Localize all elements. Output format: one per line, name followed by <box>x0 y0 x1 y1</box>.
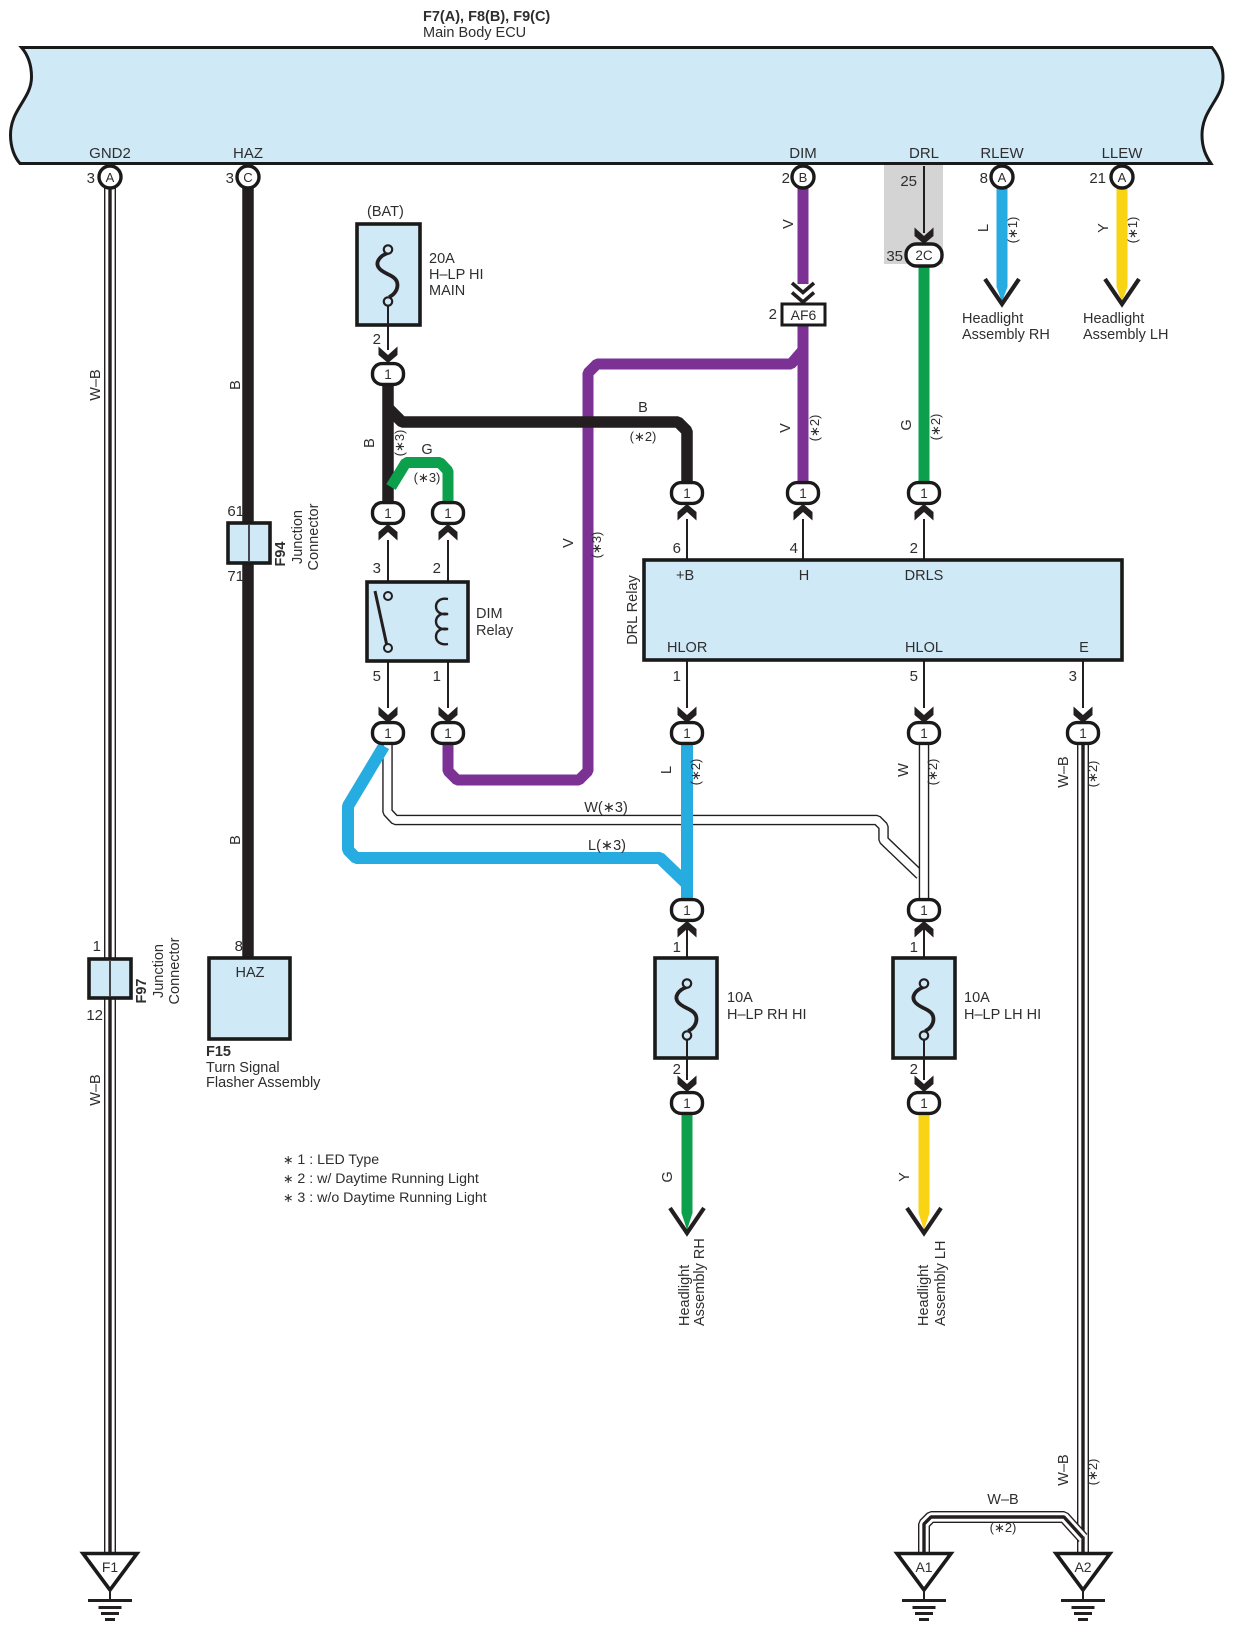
svg-text:35: 35 <box>886 248 903 265</box>
oval 1 below LH fuse <box>909 1093 940 1114</box>
wire W-B from GND2 pin A to F97 (outline) <box>104 188 116 959</box>
svg-text:12: 12 <box>86 1007 103 1024</box>
svg-text:21: 21 <box>1089 170 1106 187</box>
svg-text:Y: Y <box>897 1172 913 1182</box>
arrow up into RH fuse oval <box>678 921 697 938</box>
svg-text:1: 1 <box>920 1096 928 1111</box>
oval 1 below HLOL <box>909 723 940 744</box>
double chevron into AF6 <box>792 283 814 302</box>
arrow up into DIM relay pin 3 oval <box>379 524 398 541</box>
svg-text:1: 1 <box>683 486 691 501</box>
lead DIM relay pin 5 <box>387 652 389 708</box>
svg-text:2C: 2C <box>915 248 933 263</box>
fuse 10A H-LP RH HI <box>655 958 717 1058</box>
svg-text:G: G <box>421 442 432 458</box>
junction connector F97 <box>89 959 131 998</box>
svg-text:(∗3): (∗3) <box>589 532 604 559</box>
svg-text:1: 1 <box>920 486 928 501</box>
svg-text:4: 4 <box>790 540 798 557</box>
wire V (purple) from AF6 down to oval above DRL relay pin 4 <box>798 324 809 484</box>
svg-text:Headlight: Headlight <box>916 1265 932 1326</box>
svg-text:F7(A), F8(B), F9(C): F7(A), F8(B), F9(C) <box>423 9 550 25</box>
svg-text:(∗1): (∗1) <box>1005 217 1020 244</box>
oval 1 above DRLS <box>909 483 940 504</box>
arrow up into DIM relay pin 2 oval <box>439 524 458 541</box>
oval 1 above DIM relay pin 3 <box>373 503 404 524</box>
svg-text:E: E <box>1079 640 1089 656</box>
wire W-B(*2) branch from A1 ground to A2 wire <box>924 1517 1083 1554</box>
svg-text:(∗2): (∗2) <box>688 759 703 786</box>
svg-text:B: B <box>228 380 244 390</box>
wire Y yellow from LH fuse oval to headlight LH arrow <box>919 1113 930 1213</box>
DIM relay <box>367 582 468 661</box>
wire B (black) from HAZ pin C to F94 <box>242 188 254 523</box>
wire L(*3) blue from DIM relay pin 5 oval to RH fuse wire <box>348 746 687 884</box>
svg-text:A2: A2 <box>1074 1559 1091 1575</box>
svg-text:H–LP LH HI: H–LP LH HI <box>964 1007 1041 1023</box>
svg-text:1: 1 <box>683 726 691 741</box>
DRL relay <box>644 560 1122 660</box>
pin circle C (HAZ) <box>237 166 259 188</box>
svg-text:1: 1 <box>1079 726 1087 741</box>
svg-text:G: G <box>660 1171 676 1182</box>
svg-text:8: 8 <box>235 938 243 955</box>
svg-text:Headlight: Headlight <box>962 311 1023 327</box>
headlight LH arrow (LLEW) <box>1105 279 1139 304</box>
svg-text:1: 1 <box>673 668 681 685</box>
svg-text:MAIN: MAIN <box>429 283 465 299</box>
svg-text:2: 2 <box>769 306 777 323</box>
svg-text:(∗2): (∗2) <box>928 414 943 441</box>
svg-text:(∗2): (∗2) <box>1085 1459 1100 1486</box>
fuse 10A H-LP LH HI <box>893 958 955 1058</box>
lead DRL relay pin 1 HLOR <box>686 660 688 708</box>
svg-text:1: 1 <box>683 903 691 918</box>
svg-text:Assembly RH: Assembly RH <box>962 327 1050 343</box>
arrow down into DIM relay pin 5 oval <box>379 707 398 724</box>
arrow up into DRLS oval <box>915 504 934 521</box>
svg-text:Headlight: Headlight <box>677 1265 693 1326</box>
gray DRL option box <box>884 165 943 264</box>
svg-text:A: A <box>998 170 1007 185</box>
svg-text:1: 1 <box>444 726 452 741</box>
svg-text:(BAT): (BAT) <box>367 204 404 220</box>
lead DIM relay pin 3 <box>387 540 389 591</box>
svg-text:B: B <box>799 170 808 185</box>
svg-text:25: 25 <box>900 173 917 190</box>
wire B (black) from F94 to F15 <box>242 563 254 958</box>
svg-text:10A: 10A <box>964 990 990 1006</box>
oval 1 below RH fuse <box>672 1093 703 1114</box>
svg-text:F97: F97 <box>134 979 150 1004</box>
ground A2 <box>1056 1554 1110 1620</box>
svg-text:DRLS: DRLS <box>905 568 944 584</box>
svg-text:HAZ: HAZ <box>233 145 263 162</box>
headlight RH arrow (RLEW) <box>985 279 1019 304</box>
arrow up into H oval <box>794 504 813 521</box>
svg-text:2: 2 <box>910 1061 918 1078</box>
svg-text:V: V <box>778 423 794 433</box>
svg-text:61: 61 <box>227 503 244 520</box>
svg-text:F1: F1 <box>102 1559 119 1575</box>
svg-text:Junction: Junction <box>290 510 306 564</box>
svg-text:20A: 20A <box>429 251 455 267</box>
svg-text:V: V <box>781 219 797 229</box>
svg-text:8: 8 <box>980 170 988 187</box>
svg-text:1: 1 <box>384 506 392 521</box>
oval 1 above LH fuse <box>909 900 940 921</box>
pin circle A (GND2) <box>99 166 121 188</box>
svg-text:DIM: DIM <box>789 145 817 162</box>
svg-text:Connector: Connector <box>167 937 183 1004</box>
svg-text:W(∗3): W(∗3) <box>584 800 628 816</box>
oval 1 below E <box>1068 723 1099 744</box>
wire W(*3) white from DIM relay pin 5 oval to LH fuse wire <box>388 743 921 875</box>
svg-text:2: 2 <box>782 170 790 187</box>
wire V (purple) from DIM pin B down to AF6 <box>798 188 809 284</box>
svg-text:B: B <box>228 835 244 845</box>
svg-text:10A: 10A <box>727 990 753 1006</box>
oval 1 above DIM relay pin 2 <box>433 503 464 524</box>
lead LH fuse pin 2 <box>923 1058 925 1080</box>
wire V(*3) purple branch: AF6 leg to DIM relay pin 1 oval <box>448 349 804 780</box>
svg-text:Flasher Assembly: Flasher Assembly <box>206 1075 321 1091</box>
svg-text:1: 1 <box>384 726 392 741</box>
junction AF6 <box>782 304 825 325</box>
F15 turn signal flasher assembly box <box>209 958 290 1039</box>
Main Body ECU banner <box>11 48 1224 164</box>
svg-text:DRL: DRL <box>909 145 939 162</box>
svg-text:3: 3 <box>373 560 381 577</box>
wire L(*2) blue from HLOR oval to RH fuse oval <box>681 743 693 900</box>
svg-text:C: C <box>243 170 252 185</box>
junction connector F94 <box>228 523 270 563</box>
svg-text:L: L <box>976 224 992 232</box>
svg-text:W–B: W–B <box>88 1074 104 1105</box>
oval 1 below DIM relay pin 5 <box>373 723 404 744</box>
svg-text:2: 2 <box>433 560 441 577</box>
svg-text:∗ 3 : w/o Daytime Running Ligh: ∗ 3 : w/o Daytime Running Light <box>283 1190 487 1206</box>
svg-text:W–B: W–B <box>1056 756 1072 787</box>
oval 1 below BAT fuse <box>373 364 404 385</box>
arrow down into LH fuse out oval <box>915 1076 934 1093</box>
svg-text:B: B <box>638 400 648 416</box>
svg-text:DIM: DIM <box>476 606 503 622</box>
lead LH fuse pin 1 <box>923 922 925 958</box>
arrow up into LH fuse oval <box>915 921 934 938</box>
svg-text:71: 71 <box>227 568 244 585</box>
arrow down into HLOL oval <box>915 707 934 724</box>
svg-text:Junction: Junction <box>151 944 167 998</box>
svg-text:A: A <box>1118 170 1127 185</box>
svg-text:3: 3 <box>1069 668 1077 685</box>
wire G green from RH fuse oval to headlight RH arrow <box>682 1113 693 1213</box>
svg-text:(∗3): (∗3) <box>392 430 407 457</box>
lead RH fuse pin 1 <box>686 922 688 958</box>
svg-text:W–B: W–B <box>88 369 104 400</box>
svg-text:2: 2 <box>373 331 381 348</box>
oval 1 above +B <box>672 483 703 504</box>
oval 1 above RH fuse <box>672 900 703 921</box>
oval 2C at DRL <box>906 244 942 266</box>
svg-text:H–LP RH HI: H–LP RH HI <box>727 1007 807 1023</box>
svg-text:W: W <box>896 763 912 777</box>
wire G(*2) green from 2C oval to DRLS oval <box>919 265 930 484</box>
svg-text:(∗2): (∗2) <box>925 759 940 786</box>
svg-text:G: G <box>899 419 915 430</box>
wire W(*2) white from HLOL oval to LH fuse oval <box>919 743 930 900</box>
pin circle A (LLEW) <box>1111 166 1133 188</box>
svg-text:1: 1 <box>444 506 452 521</box>
oval 1 above H <box>788 483 819 504</box>
oval 1 below HLOR <box>672 723 703 744</box>
svg-text:1: 1 <box>683 1096 691 1111</box>
svg-text:B: B <box>362 438 378 448</box>
headlight RH arrow (bottom) <box>670 1208 704 1233</box>
svg-text:Assembly LH: Assembly LH <box>933 1241 949 1326</box>
svg-text:A: A <box>106 170 115 185</box>
svg-text:∗ 1 : LED Type: ∗ 1 : LED Type <box>283 1152 379 1168</box>
svg-text:3: 3 <box>226 170 234 187</box>
svg-text:6: 6 <box>673 540 681 557</box>
lead BAT fuse pin 2 <box>387 325 389 350</box>
lead DRL relay pin 2 DRLS <box>923 519 925 560</box>
arrow down into oval below BAT fuse <box>379 347 398 364</box>
svg-text:DRL Relay: DRL Relay <box>625 574 641 644</box>
svg-text:Relay: Relay <box>476 623 514 639</box>
headlight LH arrow (bottom) <box>907 1208 941 1233</box>
svg-text:HAZ: HAZ <box>236 965 265 981</box>
svg-text:HLOL: HLOL <box>905 640 943 656</box>
lead DIM relay pin 1 <box>447 645 449 708</box>
svg-text:5: 5 <box>910 668 918 685</box>
wire W-B from E oval down to A2 ground <box>1077 743 1089 1554</box>
svg-text:(∗2): (∗2) <box>807 415 822 442</box>
lead DRL relay pin 5 HLOL <box>923 660 925 708</box>
svg-text:H–LP HI: H–LP HI <box>429 267 484 283</box>
wire from DRL pin 25 gray area: thin black lead <box>923 166 925 233</box>
svg-text:W–B: W–B <box>987 1492 1018 1508</box>
svg-text:1: 1 <box>93 938 101 955</box>
wire G(*3) green branch from B wire to DIM relay pin 2 oval <box>391 463 448 505</box>
lead DRL relay pin 3 E <box>1082 660 1084 708</box>
svg-text:(∗2): (∗2) <box>630 429 657 444</box>
svg-text:2: 2 <box>673 1061 681 1078</box>
arrow down into DIM relay pin 1 oval <box>439 707 458 724</box>
svg-text:Assembly LH: Assembly LH <box>1083 327 1168 343</box>
svg-text:1: 1 <box>910 939 918 956</box>
arrow down into 2C oval <box>915 228 934 245</box>
svg-text:L: L <box>659 766 675 774</box>
svg-text:(∗2): (∗2) <box>990 1520 1017 1535</box>
svg-text:Main Body ECU: Main Body ECU <box>423 25 526 41</box>
svg-text:1: 1 <box>384 367 392 382</box>
wire Y yellow stub at LLEW <box>1117 188 1128 287</box>
wire L blue stub at RLEW <box>997 188 1008 287</box>
svg-text:Headlight: Headlight <box>1083 311 1144 327</box>
svg-text:1: 1 <box>433 668 441 685</box>
svg-text:LLEW: LLEW <box>1102 145 1144 162</box>
svg-text:F15: F15 <box>206 1044 231 1060</box>
svg-text:Connector: Connector <box>306 503 322 570</box>
pin circle B (DIM) <box>792 166 814 188</box>
pin circle A (RLEW) <box>991 166 1013 188</box>
svg-text:F94: F94 <box>273 542 289 567</box>
arrow down into HLOR oval <box>678 707 697 724</box>
svg-text:+B: +B <box>676 568 694 584</box>
wire B (black) from BAT fuse oval down to DIM relay pin 3 oval <box>382 383 394 504</box>
svg-text:V: V <box>561 538 577 548</box>
svg-text:∗ 2 : w/ Daytime Running Light: ∗ 2 : w/ Daytime Running Light <box>283 1171 479 1187</box>
ground A1 <box>897 1554 951 1620</box>
svg-text:1: 1 <box>673 939 681 956</box>
svg-text:1: 1 <box>920 726 928 741</box>
svg-text:(∗2): (∗2) <box>1085 761 1100 788</box>
lead DIM relay pin 2 <box>447 540 449 600</box>
svg-text:2: 2 <box>910 540 918 557</box>
fuse 20A H-LP HI MAIN (BAT) <box>357 224 420 325</box>
svg-text:W–B: W–B <box>1056 1454 1072 1485</box>
arrow down into RH fuse out oval <box>678 1076 697 1093</box>
svg-text:AF6: AF6 <box>791 307 817 323</box>
svg-text:1: 1 <box>920 903 928 918</box>
svg-text:A1: A1 <box>915 1559 932 1575</box>
ground F1 <box>83 1554 137 1620</box>
svg-text:(∗1): (∗1) <box>1125 217 1140 244</box>
svg-text:HLOR: HLOR <box>667 640 707 656</box>
lead RH fuse pin 2 <box>686 1058 688 1080</box>
wire B(*2) black branch to DRL relay +B oval <box>388 408 687 484</box>
svg-text:L(∗3): L(∗3) <box>588 838 626 854</box>
svg-text:3: 3 <box>87 170 95 187</box>
lead DRL relay pin 6 +B <box>686 519 688 560</box>
svg-text:GND2: GND2 <box>89 145 131 162</box>
lead DRL relay pin 4 H <box>802 519 804 560</box>
svg-text:RLEW: RLEW <box>980 145 1024 162</box>
wire W-B from F97 to F1 ground <box>104 998 116 1554</box>
svg-text:(∗3): (∗3) <box>414 470 441 485</box>
oval 1 below DIM relay pin 1 <box>433 723 464 744</box>
svg-text:Turn Signal: Turn Signal <box>206 1060 280 1076</box>
svg-text:5: 5 <box>373 668 381 685</box>
arrow up into +B oval <box>678 504 697 521</box>
arrow down into E oval <box>1074 707 1093 724</box>
svg-text:1: 1 <box>799 486 807 501</box>
svg-text:Assembly RH: Assembly RH <box>692 1238 708 1326</box>
svg-text:H: H <box>799 568 809 584</box>
svg-text:Y: Y <box>1096 223 1112 233</box>
